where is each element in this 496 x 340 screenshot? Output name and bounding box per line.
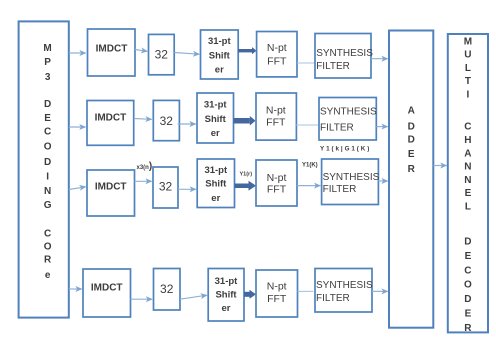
svg-text:E: E [465,309,472,320]
svg-text:C: C [464,265,471,276]
block N-pt FFT row4 [256,270,298,317]
svg-text:R: R [44,255,52,266]
svg-text:FFT: FFT [267,293,287,305]
svg-text:er: er [215,65,224,76]
thick arrow shifter to FFT row1 [238,47,256,54]
svg-text:FILTER: FILTER [316,61,350,72]
block 32 row2 [153,100,179,140]
thick arrow shifter to FFT row2 [234,116,256,126]
block SYNTHESIS FILTER row1 [315,34,373,79]
svg-text:er: er [211,193,220,204]
wire SYNTHESIS to ADDER row3 [378,180,387,182]
wire MP3 to IMDCT row3 [69,187,86,190]
block 32 row4 [154,269,181,311]
wire 32 to shifter row4 [180,295,207,299]
svg-text:Shift: Shift [209,51,231,62]
svg-text:A: A [464,148,471,159]
svg-text:Shift: Shift [215,290,237,301]
svg-text:C: C [44,228,51,239]
svg-text:SYNTHESIS: SYNTHESIS [316,48,373,59]
svg-text:Y1(K): Y1(K) [302,163,318,169]
block 32 row3 [153,167,178,208]
svg-text:D: D [464,294,471,305]
thick arrow shifter to FFT row3 [235,181,257,191]
wire SYNTHESIS to ADDER row1 [371,58,388,60]
svg-text:FFT: FFT [267,55,287,67]
thick arrow shifter to FFT row4 [244,290,256,299]
svg-text:31-pt: 31-pt [204,165,228,176]
wire 32 to shifter row2 [178,123,196,125]
svg-text:O: O [44,141,52,152]
svg-text:IMDCT: IMDCT [95,182,127,193]
block 32 row1 [149,34,175,74]
wire IMDCT to 32 row1 [135,50,147,52]
svg-text:N-pt: N-pt [267,172,287,184]
wire SYNTHESIS to ADDER row4 [372,290,388,292]
svg-text:L: L [465,63,471,74]
block N-pt FFT row2 [256,93,296,140]
svg-text:SYNTHESIS: SYNTHESIS [323,172,380,183]
svg-text:Y1(k|G1(K): Y1(k|G1(K) [320,146,371,153]
svg-text:31-pt: 31-pt [204,100,228,111]
wire FFT to SYNTHESIS row3 [297,185,320,187]
wire IMDCT to 32 row3 [135,180,152,182]
block IMDCT row4 [83,269,131,317]
svg-text:E: E [465,188,472,199]
svg-text:E: E [408,149,415,160]
block IMDCT row3 [87,170,135,216]
wire IMDCT to 32 row4 [131,298,153,300]
svg-text:er: er [211,128,220,139]
svg-text:3: 3 [45,72,51,83]
svg-text:Shift: Shift [205,114,227,125]
svg-text:R: R [464,323,472,334]
svg-text:H: H [464,135,471,146]
svg-text:D: D [464,237,471,248]
svg-text:IMDCT: IMDCT [96,44,128,55]
svg-text:U: U [464,50,471,61]
wire MP3 to IMDCT row2 [69,126,86,128]
svg-text:31-pt: 31-pt [215,276,239,287]
svg-text:SYNTHESIS: SYNTHESIS [320,106,377,117]
svg-text:N-pt: N-pt [267,281,287,293]
block N-pt FFT row1 [257,32,297,77]
wire 32 to shifter row3 [178,188,196,190]
svg-text:FILTER: FILTER [323,184,357,195]
svg-text:D: D [408,135,415,146]
svg-text:32: 32 [160,114,174,128]
block N-pt FFT row3 [256,160,297,206]
svg-text:P: P [44,57,51,68]
svg-text:D: D [44,157,51,168]
svg-text:FILTER: FILTER [316,293,350,304]
svg-text:N: N [464,162,471,173]
wire SYNTHESIS to ADDER row2 [376,126,387,128]
block SYNTHESIS FILTER row2 [319,98,377,141]
svg-text:SYNTHESIS: SYNTHESIS [316,280,373,291]
block 31-pt Shifter row4 [208,269,244,322]
block SYNTHESIS FILTER row3 [322,159,380,205]
svg-text:32: 32 [155,47,169,61]
block 31-pt Shifter row1 [201,30,239,79]
svg-text:E: E [465,251,472,262]
svg-text:N: N [464,175,471,186]
svg-text:R: R [408,164,416,175]
svg-text:32: 32 [160,282,174,296]
svg-text:N-pt: N-pt [267,42,287,54]
block SYNTHESIS FILTER row4 [315,269,373,313]
svg-text:L: L [465,202,471,213]
block MULTI CHANNEL DECODER [448,34,488,334]
svg-text:I: I [467,90,470,101]
block 31-pt Shifter row2 [197,93,234,143]
svg-text:C: C [464,122,471,133]
wire MP3 to IMDCT row4 [69,288,82,290]
wire MP3 to IMDCT row1 [69,52,86,54]
svg-text:M: M [464,36,472,47]
svg-text:IMDCT: IMDCT [91,283,123,294]
svg-text:FILTER: FILTER [320,123,354,134]
svg-text:FFT: FFT [266,116,286,128]
svg-text:O: O [464,280,472,291]
svg-text:M: M [43,43,51,54]
svg-text:O: O [44,242,52,253]
svg-text:E: E [44,113,51,124]
svg-text:er: er [222,303,231,314]
svg-text:31-pt: 31-pt [208,36,232,47]
block MP3 DECODING CORe [19,21,69,317]
svg-text:Shift: Shift [205,179,227,190]
wire IMDCT to 32 row2 [134,118,152,121]
svg-text:I: I [46,171,49,182]
svg-text:e: e [45,270,51,281]
wire FFT to SYNTHESIS row1 [297,62,315,64]
svg-text:C: C [44,126,51,137]
svg-text:D: D [44,99,51,110]
wire FFT to SYNTHESIS row2 [296,124,318,126]
block 31-pt Shifter row3 [197,159,234,208]
wire FFT to SYNTHESIS row4 [298,290,314,292]
svg-text:N-pt: N-pt [266,104,286,116]
svg-text:N: N [44,186,51,197]
svg-text:G: G [44,200,52,211]
svg-text:T: T [465,76,471,87]
svg-text:Y1(r): Y1(r) [240,172,253,178]
svg-text:IMDCT: IMDCT [95,112,127,123]
svg-text:A: A [408,105,415,116]
block ADDER [389,31,433,328]
block IMDCT row2 [87,101,134,146]
svg-text:FFT: FFT [267,183,287,195]
svg-text:32: 32 [159,180,173,194]
svg-text:D: D [408,122,415,133]
block IMDCT row1 [88,29,136,76]
wire ADDER to MULTI [433,165,446,167]
wire 32 to shifter row1 [174,53,199,55]
